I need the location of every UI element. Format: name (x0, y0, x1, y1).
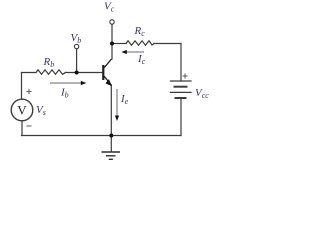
arrow Ie (115, 89, 119, 121)
node Vb terminal (74, 44, 78, 48)
arrow Ic (121, 50, 144, 54)
voltage source Vs (11, 99, 33, 121)
wire right vertical to battery (180, 44, 182, 81)
svg-text:V: V (17, 103, 27, 118)
wire Vb vertical (76, 49, 78, 73)
wire base horizontal right of Rb (66, 72, 103, 74)
junction ground node (109, 134, 113, 138)
transistor Q1 (103, 59, 111, 85)
source polarity + (27, 89, 32, 94)
wire Rc right segment (154, 43, 181, 45)
wire left vertical upper (21, 73, 23, 100)
resistor Rc (126, 41, 154, 46)
wire emitter vertical (110, 85, 112, 135)
junction base node (75, 71, 79, 75)
battery Vcc (171, 81, 192, 98)
wire bottom horizontal (22, 135, 182, 137)
arrow Ib (50, 81, 86, 85)
wire battery bottom vertical (180, 99, 182, 136)
ground stub (110, 136, 112, 152)
wire collector vertical (111, 24, 113, 59)
resistor Rb (36, 70, 66, 75)
source polarity - (27, 125, 32, 127)
wire left vertical lower (21, 121, 23, 136)
node Vc terminal (110, 20, 114, 24)
battery polarity + (183, 74, 188, 79)
transistor emitter arrowhead (105, 79, 112, 86)
junction collector node (110, 42, 114, 46)
wire Rc left segment (112, 43, 126, 45)
wire base horizontal left of Rb (22, 72, 37, 74)
ground (102, 152, 121, 159)
